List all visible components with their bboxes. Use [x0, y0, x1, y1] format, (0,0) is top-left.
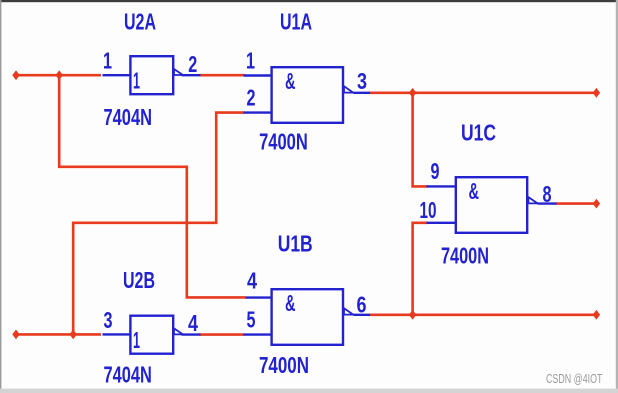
junction node U1A out branch: [409, 88, 416, 98]
svg-text:U2B: U2B: [123, 267, 155, 293]
wire U1C output net: [556, 202, 597, 205]
pin stub U1B pin 4: [246, 296, 273, 298]
pin stub U2A input: [103, 74, 131, 76]
bottom border band: [0, 389, 618, 393]
svg-text:U2A: U2A: [124, 9, 156, 35]
inverter U2B body: [130, 316, 182, 354]
NAND gate U1B body: [272, 289, 354, 345]
svg-text:4: 4: [247, 268, 257, 294]
svg-text:2: 2: [247, 85, 256, 111]
pin stub U2B input: [103, 333, 131, 335]
left border: [0, 0, 1, 393]
top border: [0, 0, 618, 2]
pin stub U1A pin 1: [244, 74, 273, 76]
junction node A branch: [56, 70, 63, 80]
svg-text:7400N: 7400N: [441, 243, 489, 269]
svg-text:3: 3: [104, 307, 113, 333]
terminal node U1A out end: [593, 88, 600, 98]
terminal node U1C out end: [593, 199, 600, 209]
pin stub U1A pin 2: [244, 111, 273, 113]
svg-text:7404N: 7404N: [104, 104, 153, 130]
pin stub U2A output: [182, 74, 201, 76]
svg-text:1: 1: [103, 47, 112, 73]
svg-text:6: 6: [357, 291, 367, 317]
svg-text:1: 1: [246, 48, 255, 74]
pin stub U1C pin 9: [427, 185, 457, 187]
svg-text:4: 4: [188, 310, 198, 336]
svg-text:U1A: U1A: [280, 9, 312, 35]
junction node input A terminal: [12, 70, 19, 80]
svg-text:1: 1: [133, 68, 140, 94]
svg-text:U1C: U1C: [461, 120, 496, 146]
wire U1A output net: [369, 92, 596, 95]
svg-text:3: 3: [357, 68, 367, 94]
wire U2B output to U1B pin 5: [200, 333, 245, 336]
wire net A (input A horizontal): [16, 74, 101, 77]
wire U1B output net: [369, 313, 596, 316]
svg-text:&: &: [285, 68, 296, 94]
svg-text:8: 8: [543, 181, 552, 207]
wire U2A output to U1A pin 1: [200, 74, 245, 77]
pin stub U1A output: [354, 92, 371, 94]
pin stub U2B output: [182, 333, 201, 335]
NAND gate U1C body: [456, 177, 538, 233]
wire net B (input B horizontal): [16, 333, 101, 336]
pin stub U1B pin 5: [244, 333, 273, 335]
svg-text:U1B: U1B: [278, 231, 313, 257]
junction node input B terminal: [12, 330, 19, 340]
wire branch to U1C pin 10: [413, 223, 428, 315]
svg-text:1: 1: [133, 327, 140, 353]
wire U1A pin 2 to net B: [73, 113, 244, 333]
pin stub U1C pin 10: [427, 222, 457, 224]
svg-text:CSDN @4IOT: CSDN @4IOT: [546, 372, 603, 386]
svg-text:2: 2: [188, 51, 197, 77]
right border: [616, 0, 618, 393]
junction node U1B out branch: [409, 310, 416, 320]
svg-text:7400N: 7400N: [259, 128, 308, 154]
svg-text:&: &: [285, 290, 296, 316]
svg-text:&: &: [469, 178, 480, 204]
junction node B branch: [70, 330, 77, 340]
pin stub U1C output: [538, 202, 557, 204]
svg-text:7404N: 7404N: [104, 361, 152, 387]
wire branch to U1C pin 9: [413, 93, 428, 187]
svg-text:7400N: 7400N: [259, 352, 309, 378]
wire net A branch to U1B pin 4: [59, 75, 245, 297]
terminal node U1B out end: [593, 310, 600, 320]
pin stub U1B output: [354, 314, 371, 316]
svg-text:9: 9: [431, 158, 440, 184]
NAND gate U1A body: [272, 67, 354, 123]
svg-text:5: 5: [247, 307, 256, 333]
inverter U2A body: [130, 56, 182, 94]
svg-text:10: 10: [420, 197, 437, 223]
